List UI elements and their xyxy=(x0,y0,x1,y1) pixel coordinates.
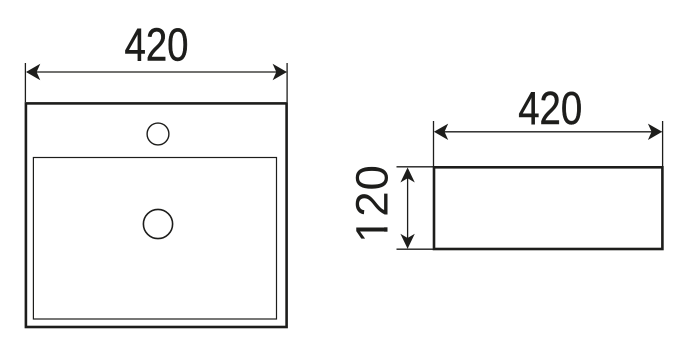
svg-text:420: 420 xyxy=(518,83,582,135)
arrowhead left (top view) xyxy=(26,64,40,80)
extension line left (side view top dim) xyxy=(433,121,435,166)
side view body rect xyxy=(434,167,662,249)
serif mask for digit 1 of 120 xyxy=(382,217,389,227)
dimension label 420 (side view) xyxy=(518,83,582,135)
arrowhead up (120 dim) xyxy=(400,168,414,183)
extension line top (120 dim) xyxy=(397,166,436,168)
drain hole circle xyxy=(143,209,172,238)
faucet hole circle xyxy=(147,123,169,145)
extension line bottom (120 dim) xyxy=(397,248,436,250)
dimension label 120 (rotated) xyxy=(347,164,398,243)
arrowhead right (side view) xyxy=(648,124,662,140)
dimension label 420 (top view) xyxy=(125,19,189,71)
svg-text:420: 420 xyxy=(125,19,189,71)
outer rim rect (top view of basin) xyxy=(26,103,287,327)
extension line right (top view) xyxy=(286,63,288,102)
dimension line 420 (top view) xyxy=(27,71,286,73)
arrowhead left (side view) xyxy=(434,124,448,140)
dimension line 420 (side view) xyxy=(435,131,662,133)
inner bowl rect (top view) xyxy=(33,158,276,320)
svg-text:120: 120 xyxy=(347,164,398,243)
extension line right (side view top dim) xyxy=(662,121,664,166)
dimension line 120 (vertical) xyxy=(407,169,409,248)
arrowhead down (120 dim) xyxy=(400,234,414,249)
extension line left (top view) xyxy=(24,63,26,102)
arrowhead right (top view) xyxy=(273,64,287,80)
